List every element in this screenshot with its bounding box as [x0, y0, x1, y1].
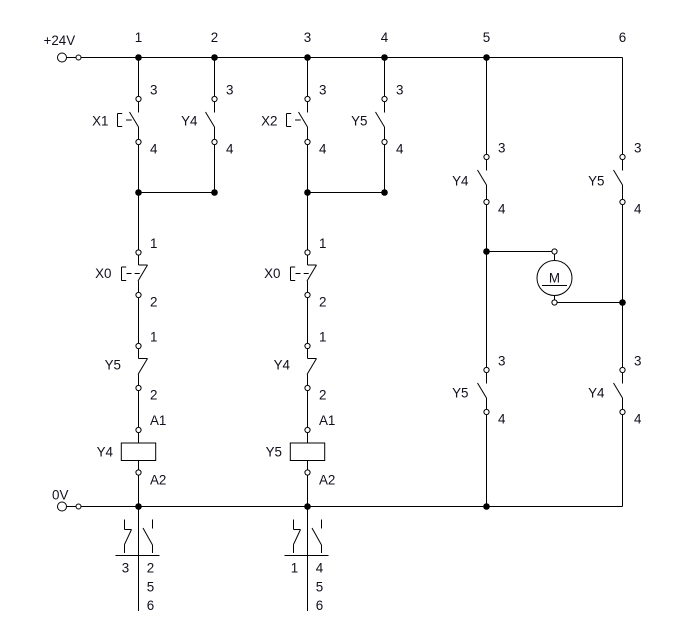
wire node6 top bus corner down: [622, 58, 624, 171]
pin label 3 of Y5 (col5b): [498, 354, 505, 369]
push-button actuator of X0 (col1): [122, 267, 143, 281]
node 5 column label: [483, 30, 490, 45]
svg-text:A1: A1: [150, 413, 166, 428]
contact mirror bar of coil Y5: [285, 555, 329, 557]
label Y5 (col5b): [452, 386, 468, 401]
wire col3 contact lower segment: [307, 127, 309, 142]
label X0 (col3): [264, 266, 280, 281]
contact Y5 NC blade (col1b): [138, 359, 148, 375]
wire col3 coil Y5 to 0V bus: [307, 461, 309, 507]
rung wire node3-node4: [308, 192, 385, 194]
svg-text:3: 3: [498, 141, 505, 156]
svg-text:4: 4: [396, 142, 404, 157]
label +24V: [44, 33, 76, 48]
pin label 4 of X1 (col1): [150, 142, 158, 157]
pin label A1 of coil Y5: [319, 413, 335, 428]
pin 3 of Y5 (col4): [382, 96, 387, 101]
svg-text:6: 6: [619, 30, 626, 45]
pin 4 of X1 (col1): [136, 139, 141, 144]
pin 1 of X0 (col1): [136, 250, 141, 255]
svg-text:X2: X2: [261, 114, 277, 129]
svg-text:2: 2: [147, 561, 154, 576]
svg-text:3: 3: [634, 354, 641, 369]
label Y4 (col2): [181, 114, 198, 129]
junction col4 rung: [381, 189, 388, 196]
contact mirror NC glyph of coil Y5: [294, 520, 301, 554]
pin label 4 of Y5 (col4): [396, 142, 404, 157]
wire col3 X0 to Y4: [307, 281, 309, 359]
svg-text:6: 6: [147, 598, 154, 613]
pin 2 of Y4 (col3b): [305, 385, 310, 390]
contact Y5 NO blade (col6): [614, 170, 623, 185]
wire node2 top bus to Y4: [214, 58, 216, 113]
wire col5b contact lower segment: [486, 398, 488, 412]
svg-text:Y5: Y5: [588, 174, 604, 189]
pin label 1 of Y4 (col3b): [319, 330, 326, 345]
pin 4 of Y5 (col5b): [484, 409, 489, 414]
pin label A1 of coil Y4: [150, 413, 166, 428]
label coil Y4: [97, 445, 114, 460]
svg-text:2: 2: [319, 388, 326, 403]
wire col5 Y5 to 0V bus: [486, 412, 488, 507]
svg-text:3: 3: [304, 30, 311, 45]
pin A2 of coil Y4: [136, 470, 141, 475]
svg-text:3: 3: [150, 83, 157, 98]
contact mirror terminals of coil Y5: [291, 561, 324, 614]
pin 1 of Y4 (col3b): [305, 343, 310, 348]
wire col6b contact lower segment: [622, 398, 624, 412]
svg-text:Y4: Y4: [274, 358, 291, 373]
wire motor vertical: [554, 252, 556, 303]
net +24V supply rail (top bus): [67, 57, 623, 59]
contact Y4 NO blade (col2): [206, 112, 215, 127]
motor M1 letter: [549, 271, 560, 286]
svg-text:1: 1: [150, 330, 157, 345]
pin 2 of X0 (col1): [136, 292, 141, 297]
junction col2 rung: [211, 189, 218, 196]
contact mirror NO glyph of coil Y5: [312, 520, 322, 554]
svg-text:Y5: Y5: [452, 386, 468, 401]
junction col1 on 0V bus: [135, 503, 142, 510]
contact mirror NO glyph of coil Y4: [143, 520, 153, 554]
terminal 0V: [58, 502, 82, 511]
pin 3 of Y4 (col2): [212, 96, 217, 101]
pin 1 of Y5 (col1b): [136, 343, 141, 348]
label X0 (col1): [95, 266, 111, 281]
label Y5 (col6): [588, 174, 604, 189]
svg-text:2: 2: [319, 295, 326, 310]
pin label 2 of Y4 (col3b): [319, 388, 326, 403]
contact Y5 NO blade (col4): [376, 112, 385, 127]
pin 3 of X2 (col3): [305, 96, 310, 101]
node 2 column label: [211, 30, 218, 45]
svg-text:4: 4: [498, 202, 506, 217]
node 3 column label: [304, 30, 311, 45]
pin label 4 of X2 (col3): [319, 142, 327, 157]
wire col6 Y4 to 0V bus corner: [622, 412, 624, 507]
wire col5 contact lower segment: [486, 185, 488, 202]
junction col5 on 0V bus: [483, 503, 490, 510]
rung wire node1-node2: [139, 192, 215, 194]
svg-text:5: 5: [316, 580, 323, 595]
svg-text:Y5: Y5: [351, 114, 367, 129]
contact Y5 NO blade (col5b): [478, 383, 487, 398]
pin label 4 of Y4 (col6b): [634, 412, 642, 427]
wire col5 Y4 to Y5: [486, 202, 488, 384]
pin 1 of X0 (col3): [305, 250, 310, 255]
pin label 3 of Y4 (col6b): [634, 354, 641, 369]
pin A2 of coil Y5: [305, 470, 310, 475]
svg-text:6: 6: [316, 598, 323, 613]
svg-text:3: 3: [319, 83, 326, 98]
svg-text:1: 1: [135, 30, 142, 45]
junction node 1 on +24V bus: [135, 54, 142, 61]
contact mirror terminals of coil Y4: [122, 561, 154, 614]
svg-text:Y4: Y4: [588, 386, 605, 401]
junction col6 motor return: [619, 299, 626, 306]
wire col1 Y5 to coil Y4: [138, 375, 140, 444]
svg-text:3: 3: [634, 141, 641, 156]
svg-text:4: 4: [634, 412, 642, 427]
svg-text:1: 1: [319, 236, 326, 251]
pin label 1 of Y5 (col1b): [150, 330, 157, 345]
wire col1 coil Y4 to 0V bus: [138, 461, 140, 507]
svg-text:2: 2: [211, 30, 218, 45]
svg-text:2: 2: [150, 295, 157, 310]
coil Y5 body (col3): [290, 443, 324, 461]
svg-text:M: M: [549, 271, 560, 286]
label Y4 (col5): [452, 174, 469, 189]
pin label 1 of X0 (col3): [319, 236, 326, 251]
wire col4 contact lower segment: [384, 127, 386, 142]
pin 3 of X1 (col1): [136, 96, 141, 101]
junction col5 motor tap: [483, 248, 490, 255]
svg-text:5: 5: [483, 30, 490, 45]
svg-text:Y4: Y4: [181, 114, 198, 129]
junction col3 rung: [304, 189, 311, 196]
junction col1 rung: [135, 189, 142, 196]
label 0V: [52, 488, 68, 503]
wire col1 contact lower segment: [138, 127, 140, 142]
junction node 2 on +24V bus: [211, 54, 218, 61]
motor M1 body: [537, 261, 572, 296]
pin label A2 of coil Y5: [319, 473, 335, 488]
label X2 (col3): [261, 114, 277, 129]
pin A1 of coil Y5: [305, 427, 310, 432]
junction col3 on 0V bus: [304, 503, 311, 510]
svg-text:Y4: Y4: [452, 174, 469, 189]
pin label 2 of X0 (col3): [319, 295, 326, 310]
pin 3 of Y5 (col6): [620, 154, 625, 159]
wire motor to node6: [555, 302, 623, 304]
svg-text:4: 4: [634, 202, 642, 217]
pin motor top: [552, 249, 557, 254]
pin label 4 of Y5 (col5b): [498, 412, 506, 427]
wire node4 top bus to Y5: [384, 58, 386, 113]
label Y4 (col3b): [274, 358, 291, 373]
wire node5 top bus to Y4: [486, 58, 488, 171]
svg-text:Y5: Y5: [105, 358, 121, 373]
pin label 3 of X2 (col3): [319, 83, 326, 98]
pin 3 of Y4 (col5): [484, 154, 489, 159]
label Y5 (col1b): [105, 358, 121, 373]
wire col3 X2 to rung: [307, 142, 309, 265]
node 4 column label: [381, 30, 389, 45]
pin label 2 of X0 (col1): [150, 295, 157, 310]
pin label 3 of Y4 (col2): [226, 83, 233, 98]
svg-text:A1: A1: [319, 413, 335, 428]
pin 3 of Y4 (col6b): [620, 367, 625, 372]
svg-text:Y5: Y5: [266, 445, 282, 460]
wire node1 top bus to X1: [138, 58, 140, 113]
wire col2 contact lower segment: [214, 127, 216, 142]
label coil Y5: [266, 445, 282, 460]
push-button actuator of X1 (col1): [118, 114, 132, 127]
contact X1 NO blade (col1): [130, 112, 139, 127]
contact Y4 NC blade (col3b): [307, 359, 317, 375]
svg-text:Y4: Y4: [97, 445, 114, 460]
contact X0 NC blade (col1): [138, 265, 148, 281]
pin 4 of Y4 (col2): [212, 139, 217, 144]
terminal +24V: [58, 53, 82, 62]
contact X2 NO blade (col3): [299, 112, 308, 127]
svg-text:4: 4: [319, 142, 327, 157]
svg-text:4: 4: [381, 30, 389, 45]
pin label 3 of Y5 (col4): [396, 83, 403, 98]
svg-text:A2: A2: [319, 473, 335, 488]
contact Y4 NO blade (col5): [478, 170, 487, 185]
wire col3 Y4 to coil Y5: [307, 375, 309, 444]
pin 4 of Y5 (col4): [382, 139, 387, 144]
label X1 (col1): [92, 114, 108, 129]
wire col2 Y4 to rung: [214, 142, 216, 193]
pin label 3 of X1 (col1): [150, 83, 157, 98]
wire col1 X0 to Y5: [138, 281, 140, 359]
push-button actuator of X2 (col3): [287, 114, 301, 127]
junction node 3 on +24V bus: [304, 54, 311, 61]
pin label 4 of Y5 (col6): [634, 202, 642, 217]
svg-text:2: 2: [150, 388, 157, 403]
pin label A2 of coil Y4: [150, 473, 166, 488]
pin label 4 of Y4 (col2): [226, 142, 234, 157]
contact mirror stem under coil coil Y5: [307, 507, 309, 612]
label Y5 (col4): [351, 114, 367, 129]
wire col6 contact lower segment: [622, 185, 624, 202]
svg-text:4: 4: [498, 412, 506, 427]
svg-text:3: 3: [498, 354, 505, 369]
svg-text:4: 4: [226, 142, 234, 157]
pin label 3 of Y4 (col5): [498, 141, 505, 156]
wire node3 top bus to X2: [307, 58, 309, 113]
svg-text:X0: X0: [95, 266, 111, 281]
svg-text:4: 4: [150, 142, 158, 157]
contact mirror NC glyph of coil Y4: [125, 520, 132, 554]
svg-text:3: 3: [122, 561, 129, 576]
contact X0 NC blade (col3): [307, 265, 317, 281]
svg-text:X1: X1: [92, 114, 108, 129]
pin 4 of X2 (col3): [305, 139, 310, 144]
svg-text:1: 1: [291, 561, 298, 576]
svg-text:+24V: +24V: [44, 33, 76, 48]
wire motor tap horizontal: [487, 251, 555, 253]
svg-text:X0: X0: [264, 266, 280, 281]
net 0V return rail (bottom bus): [67, 506, 623, 508]
wire col6 Y5 to Y4: [622, 202, 624, 384]
svg-text:3: 3: [396, 83, 403, 98]
node 1 column label: [135, 30, 142, 45]
contact mirror stem under coil coil Y4: [138, 507, 140, 612]
pin label 4 of Y4 (col5): [498, 202, 506, 217]
pin A1 of coil Y4: [136, 427, 141, 432]
pin 4 of Y5 (col6): [620, 199, 625, 204]
node 6 column label: [619, 30, 626, 45]
pin motor bottom: [552, 300, 557, 305]
pin 3 of Y5 (col5b): [484, 367, 489, 372]
label Y4 (col6b): [588, 386, 605, 401]
svg-text:1: 1: [319, 330, 326, 345]
svg-text:5: 5: [147, 580, 154, 595]
contact mirror bar of coil Y4: [116, 555, 160, 557]
pin label 2 of Y5 (col1b): [150, 388, 157, 403]
pin 4 of Y4 (col6b): [620, 409, 625, 414]
svg-text:4: 4: [316, 561, 324, 576]
wire col1 X1 to rung: [138, 142, 140, 265]
junction node 4 on +24V bus: [381, 54, 388, 61]
push-button actuator of X0 (col3): [291, 267, 312, 281]
pin label 3 of Y5 (col6): [634, 141, 641, 156]
junction node 5 on +24V bus: [483, 54, 490, 61]
pin 2 of Y5 (col1b): [136, 385, 141, 390]
svg-text:3: 3: [226, 83, 233, 98]
wire col4 Y5 to rung: [384, 142, 386, 193]
pin 4 of Y4 (col5): [484, 199, 489, 204]
svg-text:1: 1: [150, 236, 157, 251]
svg-text:A2: A2: [150, 473, 166, 488]
pin label 1 of X0 (col1): [150, 236, 157, 251]
coil Y4 body (col1): [121, 443, 155, 461]
contact Y4 NO blade (col6b): [614, 383, 623, 398]
svg-text:0V: 0V: [52, 488, 68, 503]
pin 2 of X0 (col3): [305, 292, 310, 297]
